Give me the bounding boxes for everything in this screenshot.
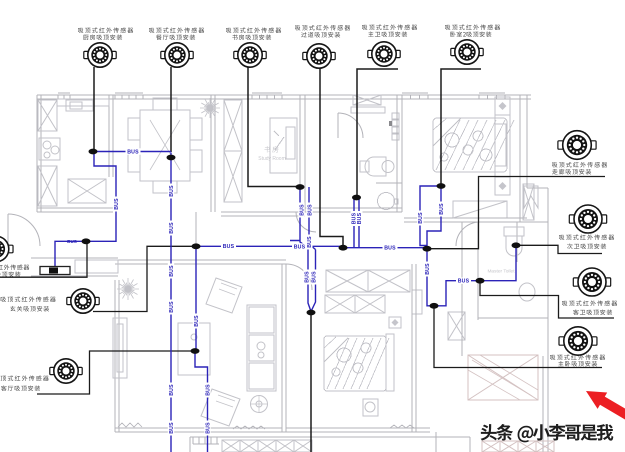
wire bus J9-J8-J7: [434, 245, 516, 305]
bus label: [193, 314, 200, 329]
svg-text:BUS: BUS: [169, 422, 175, 434]
svg-text:BUS: BUS: [384, 246, 396, 252]
wire bus J5 pair down: [354, 198, 359, 248]
svg-text:BUS: BUS: [205, 422, 211, 434]
svg-text:Master Toilet: Master Toilet: [487, 269, 515, 275]
wire leader S10: [434, 306, 602, 368]
label S7: [552, 162, 607, 168]
bus label: [168, 264, 175, 279]
label S12: [0, 375, 49, 381]
wire S5 drop: [357, 69, 398, 197]
wire leader S13: [0, 242, 87, 277]
wire leader S7: [428, 177, 605, 249]
sensor S7 hallway: [558, 131, 596, 160]
node J9: [430, 303, 439, 309]
wire bus J10-keypad: [55, 241, 86, 266]
bus label: [424, 262, 431, 277]
wire S6 drop: [441, 69, 481, 185]
node J3: [296, 184, 305, 190]
label S9: [562, 300, 617, 306]
node J12: [191, 348, 200, 354]
bus label: [113, 197, 120, 212]
bus label: [168, 221, 175, 236]
svg-text:BUS: BUS: [194, 315, 200, 327]
sensor S1 kitchen: [84, 43, 116, 67]
wire bus J11-J4: [196, 245, 343, 247]
sensor S10 masterbed: [559, 327, 597, 355]
svg-text:BUS: BUS: [425, 263, 431, 275]
svg-text:Study Room: Study Room: [258, 156, 286, 162]
node J14: [437, 183, 446, 189]
wire bus J6-J9: [427, 249, 434, 306]
label S11: [1, 296, 56, 302]
label S6: [445, 24, 500, 30]
svg-text:BUS: BUS: [169, 222, 175, 234]
wire S3 drop: [248, 67, 299, 187]
svg-text:BUS: BUS: [439, 203, 445, 215]
floor plan background walls and furniture: [8, 93, 554, 452]
sensor S12 living: [50, 359, 82, 383]
bus label: [306, 203, 313, 218]
node J1: [89, 149, 98, 155]
svg-text:BUS: BUS: [307, 236, 313, 248]
wire leader S8: [516, 245, 602, 253]
label S10: [550, 354, 605, 360]
wire S2 drop: [170, 67, 172, 152]
bus label: [221, 243, 236, 250]
bus label: [438, 202, 445, 217]
node J11: [192, 243, 201, 249]
wire bus J3 pair down: [290, 187, 316, 312]
bus label: [306, 235, 313, 250]
svg-text:BUS: BUS: [299, 204, 305, 216]
svg-text:BUS: BUS: [294, 244, 306, 250]
bus label: [303, 270, 310, 285]
label S2: [149, 27, 204, 33]
svg-text:BUS: BUS: [67, 239, 77, 244]
wire bus J14 branches: [420, 186, 441, 248]
wire leader S11: [93, 246, 196, 311]
svg-text:BUS: BUS: [169, 185, 175, 197]
node J5: [352, 195, 361, 201]
svg-text:BUS: BUS: [304, 271, 310, 283]
wire bus J11-J12: [195, 246, 197, 351]
node J7: [512, 242, 521, 248]
sensor S13 entry: [0, 236, 13, 262]
wire S4 drop: [320, 68, 343, 247]
bus label: [356, 211, 363, 226]
svg-text:BUS: BUS: [458, 279, 470, 285]
node J8: [476, 278, 485, 284]
wire bus J4-J6: [343, 247, 427, 249]
wire main feed drop: [310, 313, 312, 452]
svg-text:BUS: BUS: [312, 271, 318, 283]
wire bus J1-J2: [93, 151, 171, 153]
label S13: [0, 264, 29, 270]
label S4: [295, 25, 350, 31]
sensor S4 corridor: [303, 44, 335, 68]
sensor S2 dining: [161, 43, 193, 67]
room label study: [264, 146, 278, 152]
bus label: [168, 421, 175, 436]
sensor S5 masterbath: [368, 42, 400, 66]
bus label: [126, 148, 141, 155]
svg-text:BUS: BUS: [307, 204, 313, 216]
wire leader S12: [37, 351, 195, 394]
bus label: [298, 203, 305, 218]
label S5: [362, 24, 417, 30]
wire bus J1-J10 jog: [86, 152, 116, 241]
bus label: [351, 211, 358, 226]
label S8: [559, 234, 614, 240]
svg-text:BUS: BUS: [127, 149, 139, 155]
bus label: [383, 245, 398, 252]
wire bus J12 down: [195, 351, 208, 452]
sensor S6 bedroom2: [451, 40, 483, 64]
svg-text:BUS: BUS: [223, 244, 235, 250]
bus label: [204, 421, 211, 436]
bus label: [311, 270, 318, 285]
bus label: [204, 383, 211, 398]
label S3: [226, 27, 281, 33]
node J2: [167, 155, 176, 161]
svg-text:BUS: BUS: [418, 212, 424, 224]
bus label: [168, 383, 175, 398]
node J10: [82, 238, 91, 244]
svg-text:BUS: BUS: [169, 265, 175, 277]
sensor S3 study: [234, 43, 266, 67]
svg-text:BUS: BUS: [169, 301, 175, 313]
sensor S11 foyer: [67, 289, 99, 313]
wire S1 drop: [93, 67, 95, 151]
watermark 头条 @小李哥是我: [481, 424, 614, 442]
keypad device at entry: [40, 267, 70, 275]
bus label: [292, 243, 307, 250]
svg-text:BUS: BUS: [169, 384, 175, 396]
sensor S9 closet: [573, 268, 610, 296]
label S1: [78, 27, 133, 33]
bus label: [456, 278, 471, 285]
bus label: [417, 211, 424, 226]
bus label: [168, 184, 175, 199]
svg-text:BUS: BUS: [357, 212, 363, 224]
svg-text:BUS: BUS: [205, 384, 211, 396]
wire leader S9: [480, 281, 614, 318]
svg-text:BUS: BUS: [114, 198, 120, 210]
bus label: [168, 300, 175, 315]
red annotation arrow: [586, 391, 625, 423]
node J13: [307, 310, 316, 316]
node J6: [423, 246, 432, 252]
sensor S8 guestbath: [569, 205, 606, 233]
wire bus main left vertical: [170, 153, 172, 452]
node J4: [339, 245, 348, 251]
